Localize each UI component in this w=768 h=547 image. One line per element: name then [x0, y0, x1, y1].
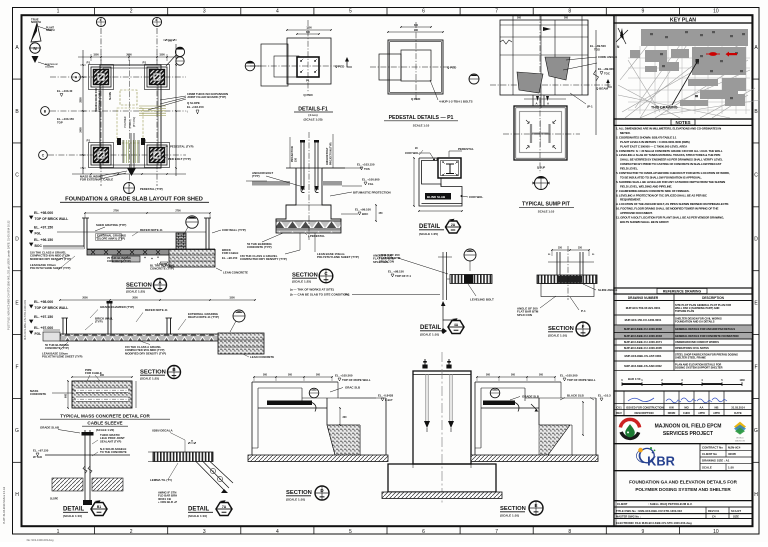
svg-text:4-MJP-1-2-TBH-1 BOLTS: 4-MJP-1-2-TBH-1 BOLTS — [439, 100, 473, 104]
svg-text:(BY OTH): (BY OTH) — [134, 117, 136, 127]
svg-text:TOP OF BRICK WALL: TOP OF BRICK WALL — [35, 217, 69, 221]
svg-text:5. CONTRACTOR TO OVERLAP BEFO: 5. CONTRACTOR TO OVERLAP BEFORE CHECKOUT… — [616, 171, 730, 175]
svg-text:MASTER DWG No :: MASTER DWG No : — [616, 514, 641, 518]
svg-text:COMPACTED BY PRIOR TO CASTING: COMPACTED BY PRIOR TO CASTING OF CONCRET… — [620, 162, 722, 166]
svg-text:(P-1: (P-1 — [587, 105, 593, 109]
svg-text:BLIND SLAB: BLIND SLAB — [427, 195, 446, 199]
svg-text:POLYETHYLENE SHEET (TYP): POLYETHYLENE SHEET (TYP) — [42, 355, 83, 359]
svg-text:C01: C01 — [616, 405, 622, 409]
svg-text:1500: 1500 — [229, 297, 235, 300]
svg-text:SECTION: SECTION — [126, 283, 152, 289]
svg-text:SECTION: SECTION — [548, 326, 574, 332]
svg-text:EXTERNAL CABLE: EXTERNAL CABLE — [99, 90, 102, 112]
svg-text:MJN-9C3-KBE-CIV-STD-1300-003: MJN-9C3-KBE-CIV-STD-1300-003 — [23, 300, 27, 340]
svg-text:BAR 1:50: BAR 1:50 — [628, 377, 641, 381]
svg-text:2700: 2700 — [113, 210, 119, 213]
svg-text:EL. +97.150: EL. +97.150 — [34, 315, 53, 319]
svg-text:MAJNOON: MAJNOON — [735, 439, 746, 442]
svg-text:A: A — [547, 102, 549, 106]
svg-text:: SHELL IRAQ PETROLEUM B.V.: : SHELL IRAQ PETROLEUM B.V. — [648, 502, 693, 506]
svg-text:P-1: P-1 — [581, 309, 586, 313]
svg-text:TITLE DWG No : MJN-9C3-KBE-CI: TITLE DWG No : MJN-9C3-KBE-CIV-STD-1300-… — [616, 509, 682, 513]
svg-text:COLUMN: COLUMN — [45, 67, 54, 69]
svg-text:FGL: FGL — [35, 332, 42, 336]
svg-text:TOP OF BRICK WALL: TOP OF BRICK WALL — [35, 306, 69, 310]
svg-text:P1: P1 — [306, 79, 310, 83]
svg-text:FGL: FGL — [368, 182, 374, 186]
svg-text:EL. +103.40: EL. +103.40 — [57, 89, 73, 93]
svg-text:500: 500 — [564, 17, 569, 20]
svg-text:2400: 2400 — [80, 127, 83, 133]
svg-text:GRAC SLB: GRAC SLB — [345, 386, 360, 390]
svg-text:DATE: DATE — [734, 411, 742, 415]
svg-text:5: 5 — [349, 9, 352, 15]
svg-text:GENERAL DETAILS FOR ANCHOR PAD: GENERAL DETAILS FOR ANCHOR PAD DETAILS — [675, 327, 735, 331]
svg-text:DETAIL: DETAIL — [188, 507, 210, 513]
svg-text:DETAIL: DETAIL — [420, 325, 442, 331]
svg-text:A: A — [535, 102, 537, 106]
svg-text:C4: C4 — [712, 514, 716, 518]
svg-text:CONCRETE: CONCRETE — [30, 392, 46, 396]
svg-text:SECTION: SECTION — [286, 490, 312, 496]
svg-text:8: 8 — [568, 529, 571, 535]
svg-text:PLOT: 31-03-2014 SCALE 1:1 A: PLOT: 31-03-2014 SCALE 1:1 A1 — [3, 486, 6, 524]
svg-text:500: 500 — [316, 374, 321, 377]
svg-text:TOP OF ROPE WALL: TOP OF ROPE WALL — [342, 378, 371, 382]
svg-text:500: 500 — [288, 374, 293, 377]
svg-text:FOUNDATION GA AND ELEVATION DE: FOUNDATION GA AND ELEVATION DETAILS FOR — [629, 480, 737, 485]
svg-text:450: 450 — [379, 212, 384, 215]
svg-text:EL. +10.3: EL. +10.3 — [598, 393, 611, 397]
svg-text:F: F — [754, 364, 757, 370]
svg-text:CORE ANGLE: CORE ANGLE — [598, 55, 617, 59]
svg-text:SHED GRATING (TYP): SHED GRATING (TYP) — [96, 223, 126, 227]
svg-text:10. FOOTING, FLOOR DRAINS SHAL: 10. FOOTING, FLOOR DRAINS SHALL BE MODIF… — [616, 207, 719, 211]
svg-text:2000: 2000 — [132, 297, 138, 300]
svg-text:500: 500 — [511, 374, 516, 377]
svg-text:SCA.NT: SCA.NT — [731, 509, 741, 513]
svg-text:SPLD CON: SPLD CON — [517, 313, 532, 317]
svg-text:ELECTRONIC FILE MJN-9C3-KBE-C: ELECTRONIC FILE MJN-9C3-KBE-CIV-STD-1300… — [616, 521, 692, 525]
svg-text:BITUMASTIC PROTECTION: BITUMASTIC PROTECTION — [353, 190, 391, 194]
svg-text:7A: 7A — [222, 505, 227, 509]
svg-text:APPD: APPD — [713, 412, 720, 415]
svg-text:G: G — [754, 428, 758, 434]
svg-text:(SCALE 1:20): (SCALE 1:20) — [96, 428, 114, 432]
svg-text:GENERAL DETAILS FOR CONCRETE F: GENERAL DETAILS FOR CONCRETE FOUNDATION — [675, 334, 739, 338]
svg-text:EL. +98.000: EL. +98.000 — [34, 300, 53, 304]
svg-text:MODIFIED DRY DENSITY (TYP): MODIFIED DRY DENSITY (TYP) — [125, 351, 166, 355]
svg-text:COMPACTED DRY DENSITY (TYP): COMPACTED DRY DENSITY (TYP) — [240, 257, 287, 261]
svg-text:4: 4 — [276, 529, 279, 535]
svg-text:EL. +105.500: EL. +105.500 — [560, 374, 578, 378]
svg-text:TYPICAL MASS CONCRETE DETAIL F: TYPICAL MASS CONCRETE DETAIL FOR — [60, 414, 150, 419]
svg-text:3: 3 — [203, 9, 206, 15]
svg-text:FOR CABLE: FOR CABLE — [222, 251, 238, 255]
svg-text:TOC: TOC — [604, 71, 610, 75]
svg-text:(4 nos): (4 nos) — [308, 113, 317, 117]
svg-text:250: 250 — [578, 247, 583, 250]
svg-text:LEAN CONCRETE: LEAN CONCRETE — [223, 271, 248, 275]
svg-text:KW: KW — [669, 405, 674, 409]
svg-text:LEVELING BOLT: LEVELING BOLT — [470, 298, 494, 302]
svg-text:DESCRIPTION: DESCRIPTION — [634, 411, 653, 415]
svg-text:7: 7 — [495, 9, 498, 15]
svg-text:900: 900 — [100, 374, 105, 377]
svg-text:1500: 1500 — [93, 54, 99, 57]
svg-text:SECTION: SECTION — [292, 273, 318, 279]
svg-text:SIZE: SIZE — [733, 514, 739, 518]
svg-text:MJP-9C3-KBE-CS-ASD-0002: MJP-9C3-KBE-CS-ASD-0002 — [624, 364, 662, 368]
svg-text:DRAWING SIZE : A1: DRAWING SIZE : A1 — [702, 459, 730, 463]
svg-text:MJP-9C3-KBE-CS-AST-0001: MJP-9C3-KBE-CS-AST-0001 — [625, 354, 662, 358]
svg-text:GRADE CHAMFER (TYP): GRADE CHAMFER (TYP) — [100, 305, 134, 309]
svg-text:D: D — [15, 237, 19, 243]
svg-text:SLOPE: SLOPE — [50, 498, 59, 501]
svg-text:C: C — [15, 173, 19, 179]
svg-text:D: D — [754, 237, 758, 243]
svg-text:6: 6 — [422, 9, 425, 15]
svg-text:PLANT EAST C 300000 —: PLANT EAST C 300000 — C 70000.000 LEVEL … — [620, 144, 688, 148]
svg-text:Q SUP: Q SUP — [537, 166, 546, 170]
svg-text:NORTH: NORTH — [31, 20, 41, 24]
svg-text:3: 3 — [203, 529, 206, 535]
svg-text:BOC: BOC — [35, 244, 43, 248]
svg-text:NORTH: NORTH — [46, 29, 55, 32]
svg-text:4A: 4A — [454, 323, 459, 327]
svg-text:600: 600 — [414, 24, 419, 27]
svg-text:1: 1 — [57, 529, 60, 535]
svg-text:10M: 10M — [739, 378, 744, 382]
svg-text:BOC: BOC — [362, 212, 368, 216]
svg-text:30005: 30005 — [728, 452, 736, 456]
svg-text:REQUIREMENT.: REQUIREMENT. — [620, 198, 641, 202]
svg-text:TOP OF ROPE WALL: TOP OF ROPE WALL — [567, 378, 596, 382]
svg-text:FOUNDATION AND GA DETAILS: FOUNDATION AND GA DETAILS — [675, 320, 715, 324]
svg-text:SPLD CON: SPLD CON — [373, 260, 388, 264]
svg-text:CONCRETE (TYP): CONCRETE (TYP) — [45, 346, 69, 350]
svg-text:PLOT FILE: MJN-9C3-KBE-CIV-STD: PLOT FILE: MJN-9C3-KBE-CIV-STD-1300-003_… — [7, 220, 11, 330]
svg-text:SLOPE: SLOPE — [109, 91, 112, 100]
svg-text:SLIDE ANGLE: SLIDE ANGLE — [598, 288, 617, 292]
svg-text:PROJECTION (TYP): PROJECTION (TYP) — [330, 142, 333, 165]
svg-text:EL. +103.150: EL. +103.150 — [357, 163, 375, 167]
svg-text:MJN-9C4: MJN-9C4 — [728, 445, 741, 449]
svg-text:(a — THK OF WORKS AT SITE): (a — THK OF WORKS AT SITE) — [290, 288, 334, 292]
svg-text:TOP OF P-1: TOP OF P-1 — [395, 274, 411, 278]
svg-text:POLYMER DOSING SYSTEM AND SHEL: POLYMER DOSING SYSTEM AND SHELTER — [635, 487, 731, 492]
svg-text:TOPSIDE PLAN: TOPSIDE PLAN — [675, 309, 694, 313]
svg-text:COR WAL: COR WAL — [405, 151, 419, 155]
svg-text:(P-MAX): (P-MAX) — [129, 119, 132, 128]
svg-text:+ CRE BLR +P: + CRE BLR +P — [158, 500, 177, 504]
svg-text:(SCALE 1:10): (SCALE 1:10) — [500, 513, 519, 517]
svg-text:DEATH NOTE-11 (TYP): DEATH NOTE-11 (TYP) — [188, 315, 219, 319]
svg-text:SCALE 1:10: SCALE 1:10 — [538, 210, 555, 214]
svg-text:1: 1 — [57, 9, 60, 15]
svg-text:LEAN CONCRETE: LEAN CONCRETE — [250, 355, 274, 359]
svg-text:CONCRETE (TYP): CONCRETE (TYP) — [107, 259, 131, 263]
svg-text:2600: 2600 — [126, 54, 132, 57]
svg-text:(SCALE 1:10): (SCALE 1:10) — [63, 514, 82, 518]
svg-text:TO THE CONCRETE: TO THE CONCRETE — [100, 450, 127, 454]
svg-text:TOS: TOS — [364, 167, 370, 171]
svg-text:1:50: 1:50 — [728, 466, 734, 470]
svg-text:GRADE SLB: GRADE SLB — [522, 395, 539, 399]
svg-text:EL. +96.150: EL. +96.150 — [34, 238, 53, 242]
svg-text:2: 2 — [130, 9, 133, 15]
svg-text:PEDESTAL DETAILS — P1: PEDESTAL DETAILS — P1 — [389, 115, 454, 121]
svg-text:500: 500 — [517, 17, 522, 20]
svg-text:MAJNOON OIL FIELD EPCM: MAJNOON OIL FIELD EPCM — [655, 424, 722, 430]
svg-text:CLIENT: CLIENT — [617, 502, 628, 506]
svg-text:B1: B1 — [97, 505, 101, 509]
svg-text:FIELD LEVEL.: FIELD LEVEL. — [620, 167, 638, 171]
svg-text:7: 7 — [495, 529, 498, 535]
svg-text:F: F — [15, 364, 18, 370]
svg-text:COR WALL (TYP): COR WALL (TYP) — [222, 228, 246, 232]
svg-text:KBR: KBR — [647, 454, 675, 469]
svg-text:CONCRETE (TYP): CONCRETE (TYP) — [247, 245, 272, 249]
svg-text:500: 500 — [539, 374, 544, 377]
svg-text:FGL: FGL — [35, 231, 42, 235]
svg-text:CLIENT No: CLIENT No — [702, 452, 717, 456]
svg-text:8: 8 — [568, 9, 571, 15]
svg-text:300: 300 — [343, 416, 348, 419]
svg-text:PEDESTAL: PEDESTAL — [458, 147, 474, 151]
svg-text:EL. +98.150: EL. +98.150 — [388, 270, 404, 274]
svg-text:CONCRETE (TYP): CONCRETE (TYP) — [150, 267, 174, 271]
svg-text:MJP-9C3-KBE-CU-1300-0071: MJP-9C3-KBE-CU-1300-0071 — [624, 340, 662, 344]
svg-text:(SCALE 1:25): (SCALE 1:25) — [292, 280, 311, 284]
svg-text:DETAILS-F1: DETAILS-F1 — [298, 107, 328, 113]
svg-text:CHKD: CHKD — [683, 412, 690, 415]
svg-text:REV: REV — [616, 411, 622, 415]
svg-text:EL. +96.150: EL. +96.150 — [222, 256, 238, 260]
svg-text:PLANT LEVELS IN METERS = 0: PLANT LEVELS IN METERS = 0 3400-0000-000… — [620, 140, 690, 144]
svg-text:AA: AA — [700, 405, 704, 409]
svg-text:EL. +105.500: EL. +105.500 — [335, 374, 353, 378]
svg-text:(TYP): (TYP) — [95, 320, 103, 324]
svg-text:PED BOLT (TYP): PED BOLT (TYP) — [168, 157, 191, 161]
svg-text:TO BE INSULATED TO SHALLOW FOU: TO BE INSULATED TO SHALLOW FOUNDATION IS… — [620, 175, 702, 179]
svg-text:DESCRIPTION: DESCRIPTION — [702, 296, 724, 300]
svg-text:SECTION: SECTION — [500, 506, 526, 512]
svg-text:CONTRACT No: CONTRACT No — [702, 445, 723, 449]
svg-text:EL. -0.8428: EL. -0.8428 — [378, 394, 393, 398]
svg-text:3. CONCRETE: fc = 30 N/mm2 CO: 3. CONCRETE: fc = 30 N/mm2 CONCRETE GRAD… — [616, 149, 723, 153]
svg-text:TYPICAL SUMP PIT: TYPICAL SUMP PIT — [522, 202, 571, 208]
svg-text:EL. +99.100: EL. +99.100 — [355, 208, 371, 212]
svg-text:MJP-9C3-KBE-CU-1300-0005: MJP-9C3-KBE-CU-1300-0005 — [624, 346, 662, 350]
svg-text:10: 10 — [713, 529, 719, 535]
svg-text:FIELD LEVEL, WELDING AND PIPEL: FIELD LEVEL, WELDING AND PIPELINE. — [620, 184, 672, 188]
svg-text:OPERATIONS CIVIL NOTES: OPERATIONS CIVIL NOTES — [675, 346, 709, 350]
svg-text:1. ALL DIMENSIONS ARE IN MILL: 1. ALL DIMENSIONS ARE IN MILLIMETERS, EL… — [616, 127, 721, 131]
svg-text:SHALL BE VERIFIED BY ENGINEER: SHALL BE VERIFIED BY ENGINEER AS PER DRA… — [620, 158, 723, 162]
svg-text:600: 600 — [306, 31, 311, 34]
svg-text:POLYETHYLENE SHEET (TYP): POLYETHYLENE SHEET (TYP) — [317, 255, 359, 259]
svg-text:2. COORDINATES SHOWN: BS8,47: 2. COORDINATES SHOWN: BS8,470 TABLE 3.1 — [616, 135, 677, 139]
svg-text:JOINT FILLER BOARD (TYP): JOINT FILLER BOARD (TYP) — [187, 95, 226, 99]
svg-text:4. LEVELING A SLAB OF TANKS M: 4. LEVELING A SLAB OF TANKS MATERIAL TRA… — [616, 153, 720, 157]
svg-text:GRADE SLAB: GRADE SLAB — [40, 426, 59, 430]
svg-text:(b — CAN BE SLAB TO SITE CONDI: (b — CAN BE SLAB TO SITE CONDITION) — [290, 293, 349, 297]
svg-text:REFER NOTE-11: REFER NOTE-11 — [140, 228, 163, 232]
svg-text:G: G — [15, 428, 19, 434]
svg-text:(SCALE 1:25): (SCALE 1:25) — [303, 118, 322, 122]
svg-text:H: H — [754, 492, 758, 498]
svg-text:9: 9 — [641, 529, 644, 535]
svg-text:SEALANT (TYP): SEALANT (TYP) — [100, 439, 121, 443]
svg-text:METER.: METER. — [620, 131, 631, 135]
svg-text:Q PED: Q PED — [335, 64, 345, 68]
svg-text:BOLTS SHOWN SHALL BE IN GROUT.: BOLTS SHOWN SHALL BE IN GROUT. — [620, 220, 669, 224]
svg-text:C: C — [754, 173, 758, 179]
svg-text:COR WAL: COR WAL — [469, 195, 483, 199]
svg-text:Q PED: Q PED — [447, 65, 457, 69]
svg-text:file: 9C3-1300-003.dwg: file: 9C3-1300-003.dwg — [27, 538, 54, 542]
svg-text:150: 150 — [295, 157, 298, 162]
svg-text:H: H — [15, 492, 19, 498]
svg-text:(SCALE 1:25): (SCALE 1:25) — [126, 290, 145, 294]
svg-text:EL. +98.000: EL. +98.000 — [34, 211, 53, 215]
svg-text:NOTES: NOTES — [675, 120, 690, 125]
svg-text:31.03.2014: 31.03.2014 — [731, 405, 745, 409]
svg-text:DETAIL: DETAIL — [419, 224, 441, 230]
svg-text:1 SLOPE: 1 SLOPE — [157, 263, 168, 266]
svg-text:BLACK SLB: BLACK SLB — [567, 393, 584, 397]
svg-text:P1: P1 — [143, 61, 147, 65]
svg-text:2000: 2000 — [82, 297, 88, 300]
svg-text:(SCALE 1:10): (SCALE 1:10) — [420, 332, 439, 336]
svg-text:DOSING SYSTEM SUPPORT SHELTER: DOSING SYSTEM SUPPORT SHELTER — [675, 365, 723, 369]
svg-text:ISSUED FOR CONSTRUCTION: ISSUED FOR CONSTRUCTION — [626, 405, 664, 409]
svg-text:6: 6 — [422, 529, 425, 535]
svg-text:EL +103.150: EL +103.150 — [187, 105, 204, 109]
svg-text:WORLD: WORLD — [736, 438, 744, 440]
svg-text:(SLOPE AWAY) (TYP): (SLOPE AWAY) (TYP) — [97, 237, 125, 241]
svg-text:EL. +97.000: EL. +97.000 — [34, 326, 53, 330]
svg-text:REFER NOTE-11: REFER NOTE-11 — [145, 308, 168, 312]
svg-text:2800: 2800 — [80, 97, 83, 103]
svg-text:SECTION: SECTION — [140, 370, 166, 376]
svg-text:EL. +97.150: EL. +97.150 — [33, 449, 49, 453]
svg-text:P1: P1 — [87, 61, 91, 65]
svg-text:UNDERGROUND CONDUIT WORKS: UNDERGROUND CONDUIT WORKS — [675, 340, 719, 344]
svg-text:DRWN: DRWN — [668, 412, 676, 415]
svg-text:POLYMER: POLYMER — [125, 116, 127, 127]
svg-text:THIS DRAWING: THIS DRAWING — [651, 106, 678, 110]
svg-text:W TAO: W TAO — [33, 455, 43, 459]
svg-text:500: 500 — [486, 374, 491, 377]
svg-text:TOS: TOS — [594, 48, 600, 52]
svg-text:8. LEVELING A PROTECTION OF 7: 8. LEVELING A PROTECTION OF 75C SPLICED … — [616, 193, 708, 197]
svg-text:L.B.P: L.B.P — [385, 398, 392, 402]
svg-text:MODIFIED DRY DENSITY (TYP): MODIFIED DRY DENSITY (TYP) — [30, 257, 71, 261]
svg-text:EL. +97.150: EL. +97.150 — [34, 226, 53, 230]
svg-text:(SCALE 1:25): (SCALE 1:25) — [419, 232, 438, 236]
svg-text:(SCALE 1:10): (SCALE 1:10) — [188, 514, 207, 518]
svg-text:↑: ↑ — [186, 109, 188, 114]
svg-text:4: 4 — [276, 9, 279, 15]
svg-text:CABLE SLEEVE: CABLE SLEEVE — [87, 421, 122, 426]
svg-text:( PEDESTAL: ( PEDESTAL — [308, 234, 325, 238]
svg-text:SHELTER STEEL FRAME: SHELTER STEEL FRAME — [675, 356, 706, 360]
svg-text:REFERENCE DRAWING: REFERENCE DRAWING — [663, 290, 702, 294]
svg-text:P1: P1 — [87, 139, 91, 143]
svg-text:1500: 1500 — [159, 54, 165, 57]
svg-text:2A: 2A — [451, 223, 456, 227]
svg-text:P-1: P-1 — [345, 293, 350, 297]
svg-text:900: 900 — [414, 29, 419, 32]
svg-text:DRAWING NUMBER: DRAWING NUMBER — [628, 296, 659, 300]
svg-text:SCALE 1:10: SCALE 1:10 — [413, 124, 430, 128]
svg-text:250: 250 — [558, 247, 563, 250]
svg-text:7. CHAMFERING EDGES CONCRETE: 7. CHAMFERING EDGES CONCRETE SIDE OF FIN… — [616, 189, 690, 193]
svg-text:APPD: APPD — [698, 412, 705, 415]
svg-text:9: 9 — [641, 9, 644, 15]
svg-text:MJP-9C3-T00-0F-821-0001: MJP-9C3-T00-0F-821-0001 — [626, 306, 661, 310]
svg-text:(SCALE 1:10): (SCALE 1:10) — [286, 497, 305, 501]
svg-text:MO: MO — [684, 405, 688, 409]
svg-text:APPROVED DOCUMENT.: APPROVED DOCUMENT. — [620, 211, 653, 215]
svg-text:(SCALE 1:10): (SCALE 1:10) — [548, 333, 567, 337]
svg-text:MJP-9C3-150-CU-1300-0001: MJP-9C3-150-CU-1300-0001 — [625, 318, 662, 322]
svg-text:SCALE: SCALE — [702, 466, 712, 470]
svg-text:500: 500 — [263, 374, 268, 377]
svg-text:X280/ DEGALA: X280/ DEGALA — [152, 429, 173, 433]
svg-text:MJP-9C3-KBE-CU-1300-0002: MJP-9C3-KBE-CU-1300-0002 — [624, 327, 662, 331]
svg-text:(TYP): (TYP) — [252, 174, 260, 178]
svg-text:PEDESTAL (TYP): PEDESTAL (TYP) — [170, 145, 194, 149]
svg-text:REV:C01: REV:C01 — [708, 509, 720, 513]
svg-text:TOP: TOP — [57, 121, 63, 125]
svg-text:SERVICES PROJECT: SERVICES PROJECT — [663, 431, 713, 437]
svg-text:600: 600 — [65, 393, 68, 398]
svg-text:6. SHORING SHALL BE LEVELLED: 6. SHORING SHALL BE LEVELLED FOR ANY CAT… — [616, 180, 725, 184]
svg-text:1200: 1200 — [306, 27, 312, 30]
svg-text:11. GROUT A BOLT LOCATION FOR: 11. GROUT A BOLT LOCATION FOR PLANT SHAL… — [616, 216, 724, 220]
svg-text:FOR EXTERNAL CABLE: FOR EXTERNAL CABLE — [80, 178, 113, 182]
svg-text:EL. +100.900: EL. +100.900 — [362, 178, 380, 182]
svg-text:DETAIL: DETAIL — [63, 507, 85, 513]
svg-text:Q BEAM: Q BEAM — [596, 86, 609, 90]
svg-text:Q PED: Q PED — [303, 93, 313, 97]
svg-text:10: 10 — [713, 9, 719, 15]
svg-text:Q PED: Q PED — [411, 97, 421, 101]
svg-text:2: 2 — [130, 529, 133, 535]
svg-text:5: 5 — [349, 529, 352, 535]
svg-text:MJP-9C3-KBE-CU-1300-0003: MJP-9C3-KBE-CU-1300-0003 — [624, 334, 662, 338]
svg-text:NB: NB — [715, 405, 719, 409]
svg-text:PEDESTAL (TYP): PEDESTAL (TYP) — [140, 187, 163, 191]
svg-text:FOUNDATION & GRADE SLAB LAYOUT: FOUNDATION & GRADE SLAB LAYOUT FOR SHED — [65, 197, 203, 203]
svg-text:(SCALE 1:25): (SCALE 1:25) — [140, 377, 159, 381]
svg-text:2700: 2700 — [175, 210, 181, 213]
svg-text:POLYETHYLENE SHEET (TYP): POLYETHYLENE SHEET (TYP) — [30, 266, 71, 270]
svg-text:9. LOCATION OF THE ANCHOR BOL: 9. LOCATION OF THE ANCHOR BOLT, AS PIPES… — [616, 202, 729, 206]
